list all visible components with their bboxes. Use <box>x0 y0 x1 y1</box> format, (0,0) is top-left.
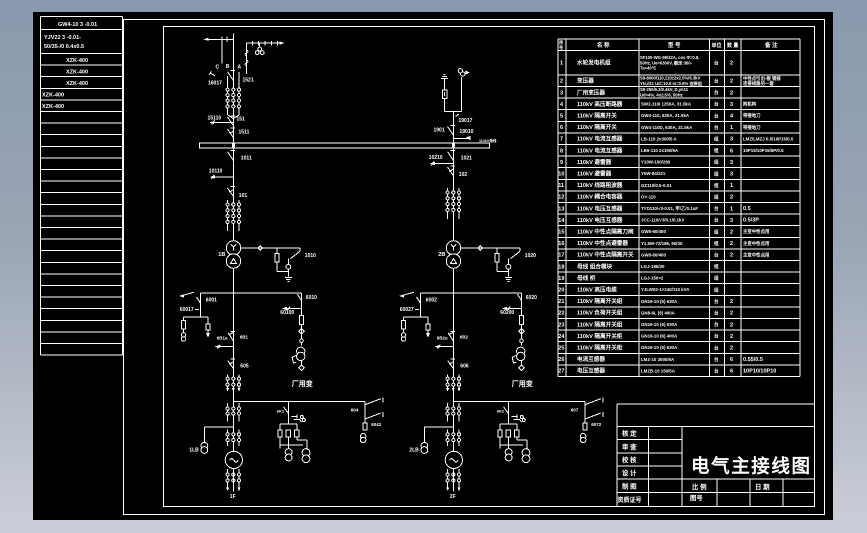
svg-text:台: 台 <box>714 124 719 131</box>
svg-text:YN,d11 Ud=10.5 Io=0.8% 连接组: YN,d11 Ud=10.5 Io=0.8% 连接组 <box>640 80 703 87</box>
svg-text:2LB: 2LB <box>409 448 419 454</box>
svg-text:110kV 隔离开关柜: 110kV 隔离开关柜 <box>577 344 623 352</box>
breaker 1511 blade <box>228 129 234 138</box>
svg-text:5: 5 <box>560 114 563 120</box>
svg-text:审 查: 审 查 <box>622 442 637 451</box>
svg-text:10P10/10P10: 10P10/10P10 <box>743 368 776 374</box>
svg-text:16017: 16017 <box>208 81 222 87</box>
arrester down arrow <box>206 333 210 338</box>
earthing 60100 arm <box>286 308 302 310</box>
PT header wire <box>404 316 428 318</box>
svg-text:制 图: 制 图 <box>622 481 637 490</box>
svg-text:19: 19 <box>558 276 564 282</box>
svg-text:16: 16 <box>558 241 564 247</box>
generator 1F circle <box>225 451 242 468</box>
line PT branch wire <box>246 43 248 74</box>
svg-text:6B2a: 6B2a <box>437 336 448 341</box>
station hook wire <box>300 339 304 343</box>
svg-text:2: 2 <box>560 79 563 85</box>
disconnect 6B2 blade <box>448 333 453 341</box>
svg-text:50/35-/0 0.4x0.5: 50/35-/0 0.4x0.5 <box>44 44 84 50</box>
svg-text:台: 台 <box>714 60 719 67</box>
svg-text:21: 21 <box>558 299 564 305</box>
svg-text:6: 6 <box>730 148 733 154</box>
station transformer circles <box>297 347 305 355</box>
CT arrows upper <box>446 388 449 392</box>
neutral arrester fuse <box>495 254 499 263</box>
svg-text:设 计: 设 计 <box>622 468 637 477</box>
svg-text:S9-250/6.3/0.4kV, D,yn11: S9-250/6.3/0.4kV, D,yn11 <box>640 87 689 92</box>
station fuse <box>299 315 303 324</box>
svg-text:10: 10 <box>558 172 564 178</box>
svg-text:Ud=4%, 4x2.5%, 50Hz: Ud=4%, 4x2.5%, 50Hz <box>640 93 683 98</box>
svg-text:6: 6 <box>730 357 733 363</box>
svg-text:110kV 隔离开关: 110kV 隔离开关 <box>577 123 617 131</box>
breaker 605 blade <box>228 360 234 368</box>
svg-text:台: 台 <box>714 78 719 85</box>
svg-text:GN19-10 (6) 630A: GN19-10 (6) 630A <box>641 345 678 350</box>
svg-text:6001: 6001 <box>206 298 217 304</box>
svg-text:2: 2 <box>730 230 733 236</box>
svg-text:6B1: 6B1 <box>240 335 249 340</box>
wire 110kV riser <box>452 148 454 241</box>
PT header wire <box>184 316 208 318</box>
earthing switch 15110 arm <box>213 122 233 124</box>
svg-text:18: 18 <box>558 264 564 270</box>
neutral ground <box>505 277 512 279</box>
svg-text:台: 台 <box>714 205 719 212</box>
wire to terminal <box>452 469 454 492</box>
svg-text:20: 20 <box>558 288 564 294</box>
svg-text:6042: 6042 <box>371 422 382 427</box>
svg-text:110kV 电压互感器: 110kV 电压互感器 <box>577 204 623 212</box>
svg-text:带接地刀: 带接地刀 <box>743 124 761 131</box>
svg-text:台: 台 <box>714 356 719 363</box>
svg-text:厂用变: 厂用变 <box>292 379 313 388</box>
svg-text:6B1a: 6B1a <box>217 336 228 341</box>
svg-text:110kV 中性点避雷器: 110kV 中性点避雷器 <box>577 239 628 247</box>
disconnect 6001 blade+arrow <box>181 292 194 296</box>
generator 2F circle <box>445 451 462 468</box>
110kV busbar <box>200 143 490 148</box>
svg-text:1F: 1F <box>230 494 236 500</box>
svg-text:组: 组 <box>714 147 719 154</box>
svg-text:组: 组 <box>714 240 719 247</box>
diamond lower <box>519 365 524 370</box>
earthing arm LV <box>218 346 233 348</box>
arrester fuse right <box>207 317 209 324</box>
svg-text:6: 6 <box>560 125 563 131</box>
coupling PT circles <box>259 43 261 47</box>
svg-text:组: 组 <box>714 194 719 201</box>
svg-text:GN19-10 (6) 630A: GN19-10 (6) 630A <box>641 299 678 304</box>
svg-text:主变中性点用: 主变中性点用 <box>743 228 769 235</box>
disconnect 6B1 blade <box>228 333 233 341</box>
svg-text:单位: 单位 <box>712 42 722 49</box>
svg-text:1: 1 <box>730 206 733 212</box>
svg-text:SF100-WG-99/22A, cos Φ=0.8,: SF100-WG-99/22A, cos Φ=0.8, <box>640 55 699 60</box>
svg-text:604: 604 <box>351 408 359 413</box>
inner sheet frame <box>164 27 815 507</box>
bus junction unit1 <box>232 143 235 148</box>
tap PT circles <box>581 434 586 439</box>
svg-text:C: C <box>216 65 220 71</box>
earth tick 16017 <box>211 73 216 76</box>
mid PT winding B <box>522 449 530 457</box>
disconnect 151 blade <box>228 117 234 126</box>
svg-text:1LB: 1LB <box>189 448 199 454</box>
svg-text:2: 2 <box>730 253 733 259</box>
svg-text:3: 3 <box>730 160 733 166</box>
svg-text:台: 台 <box>714 101 719 108</box>
svg-text:10210: 10210 <box>429 155 443 161</box>
svg-text:110kV 线路阻波器: 110kV 线路阻波器 <box>577 181 623 189</box>
transformer 1B <box>226 241 240 255</box>
svg-text:12: 12 <box>558 195 564 201</box>
CT group gen upper <box>447 375 449 392</box>
wire LV riser <box>232 268 234 451</box>
svg-text:GW8-60/400: GW8-60/400 <box>641 252 666 257</box>
svg-text:101: 101 <box>239 193 248 199</box>
svg-text:台: 台 <box>714 217 719 224</box>
svg-text:60027: 60027 <box>400 307 414 313</box>
svg-text:110kV 中性点隔离刀闸: 110kV 中性点隔离刀闸 <box>577 228 634 236</box>
mid PT winding A <box>505 449 512 456</box>
mid PT squiggles <box>512 415 522 423</box>
svg-text:台: 台 <box>714 112 719 119</box>
svg-text:带接地刀: 带接地刀 <box>743 112 761 119</box>
tap switch blade2 <box>365 413 381 419</box>
svg-text:GN19-10 (6) 400A: GN19-10 (6) 400A <box>641 334 678 339</box>
svg-text:13: 13 <box>558 206 564 212</box>
svg-text:母线 桥: 母线 桥 <box>577 274 596 282</box>
station hook wire <box>520 339 524 343</box>
neutral fuse branch wire <box>276 248 278 254</box>
svg-text:19010: 19010 <box>460 129 474 135</box>
CT group gen upper <box>227 375 229 392</box>
svg-text:YJLW02-1×240/110 kVA: YJLW02-1×240/110 kVA <box>641 287 690 292</box>
svg-text:Ta=40℃: Ta=40℃ <box>640 66 657 71</box>
tap switch blade1 <box>584 402 586 423</box>
incoming overhead line <box>209 38 234 40</box>
mid PT fuses <box>499 424 501 430</box>
svg-text:19017: 19017 <box>459 118 473 124</box>
svg-text:6020: 6020 <box>526 295 537 301</box>
svg-text:台: 台 <box>714 333 719 340</box>
svg-text:110kV母线: 110kV母线 <box>479 138 497 143</box>
svg-text:3: 3 <box>730 218 733 224</box>
svg-text:组: 组 <box>714 159 719 166</box>
wire unit2 riser <box>452 111 454 143</box>
svg-text:台: 台 <box>714 298 719 305</box>
svg-text:GW4-110, 630A, 31.5kA: GW4-110, 630A, 31.5kA <box>641 113 690 118</box>
svg-text:XZK-400: XZK-400 <box>42 93 64 99</box>
svg-text:110kV 耦合电容器: 110kV 耦合电容器 <box>577 193 623 201</box>
mid PT squiggles <box>292 415 302 423</box>
6kV tee wire <box>201 292 302 294</box>
exciter tap wire <box>204 426 233 428</box>
svg-text:组: 组 <box>714 263 719 270</box>
svg-text:23: 23 <box>558 322 564 328</box>
svg-text:605: 605 <box>240 364 249 370</box>
svg-text:8: 8 <box>560 148 563 154</box>
svg-text:GW8-60/400: GW8-60/400 <box>641 229 666 234</box>
svg-text:1: 1 <box>560 61 563 67</box>
bay top tee wire <box>445 110 462 112</box>
svg-text:6K1: 6K1 <box>277 409 285 414</box>
arrester top wire <box>444 79 446 90</box>
breaker 606 blade <box>448 360 454 368</box>
CT group (4 windings) <box>227 200 229 231</box>
svg-text:2: 2 <box>730 346 733 352</box>
svg-text:2B: 2B <box>438 252 445 258</box>
tap wire <box>453 401 585 403</box>
wire incoming vertical <box>232 34 234 144</box>
svg-text:台: 台 <box>714 252 719 259</box>
line trap ticks <box>252 41 254 45</box>
breaker 101 blade <box>228 188 234 197</box>
tap wire <box>233 401 365 403</box>
svg-text:1511: 1511 <box>239 130 250 136</box>
svg-text:60200: 60200 <box>500 310 514 316</box>
mid PT blade <box>504 407 509 414</box>
svg-text:B: B <box>226 64 230 70</box>
svg-text:110kV 避雷器: 110kV 避雷器 <box>577 158 612 166</box>
arrester down arrow <box>426 333 430 338</box>
svg-text:电压互感器: 电压互感器 <box>577 367 605 375</box>
svg-text:TYD110/√3-0.01, 甲/乙/0.1uF: TYD110/√3-0.01, 甲/乙/0.1uF <box>641 205 698 212</box>
svg-text:S9-8000/110,110±2x2.5%/6.3kV: S9-8000/110,110±2x2.5%/6.3kV <box>640 76 700 81</box>
CT group gen lower <box>227 430 229 447</box>
tap PT circles <box>361 434 366 439</box>
neutral disconnect blade <box>510 251 520 259</box>
svg-text:2: 2 <box>730 90 733 96</box>
svg-text:SW2-110I 1250A, 31.5kA: SW2-110I 1250A, 31.5kA <box>641 102 692 107</box>
diamond lower <box>299 365 304 370</box>
svg-text:LMZB-10 150/5A: LMZB-10 150/5A <box>641 368 676 373</box>
svg-text:7: 7 <box>560 137 563 143</box>
transformer 2B <box>446 241 460 255</box>
PT fuse left <box>403 317 405 320</box>
svg-text:0.55/0.5: 0.55/0.5 <box>743 357 763 363</box>
svg-text:XZK-400: XZK-400 <box>42 104 64 110</box>
mid PT jog wire <box>297 439 307 441</box>
svg-text:电气主接线图: 电气主接线图 <box>691 456 812 477</box>
neutral arrester fuse <box>275 254 279 263</box>
arrester fuse right <box>427 317 429 324</box>
exciter transformer 1LB <box>201 442 208 449</box>
svg-text:LGJ-150×2: LGJ-150×2 <box>641 276 664 281</box>
earthing switch 10110 arm <box>214 176 234 178</box>
mid PT header <box>280 423 297 425</box>
svg-text:台: 台 <box>714 321 719 328</box>
tap switch blade2 <box>585 413 601 419</box>
wire below station tr <box>521 361 523 366</box>
CT arrows below gen <box>226 487 229 491</box>
svg-text:GW4-10 3 -0.01: GW4-10 3 -0.01 <box>58 22 97 28</box>
mid PT winding A <box>285 449 292 456</box>
svg-text:110kV 负荷开关组: 110kV 负荷开关组 <box>577 309 623 317</box>
disconnect 6020 blade <box>521 293 523 346</box>
generator 2F tilde <box>450 459 459 462</box>
mid PT jog wire <box>517 439 527 441</box>
outer sheet frame <box>124 20 825 515</box>
svg-text:3: 3 <box>730 172 733 178</box>
svg-text:22: 22 <box>558 311 564 317</box>
CT group below tap <box>227 403 229 421</box>
station transformer circles <box>517 347 525 355</box>
neutral ground <box>285 277 292 279</box>
svg-text:11: 11 <box>558 183 564 189</box>
neutral PT circle <box>506 264 511 269</box>
svg-text:6072: 6072 <box>591 422 602 427</box>
transformer 2B delta symbol <box>451 259 457 264</box>
svg-text:2: 2 <box>730 195 733 201</box>
station fuse <box>519 315 523 324</box>
svg-text:型 号: 型 号 <box>668 41 681 49</box>
equipment list table <box>558 39 800 377</box>
svg-text:3: 3 <box>730 137 733 143</box>
svg-text:110kV 中性点隔离开关: 110kV 中性点隔离开关 <box>577 251 634 259</box>
svg-text:110kV 高压电缆: 110kV 高压电缆 <box>577 286 617 294</box>
svg-text:LMZ-10 3000/5A: LMZ-10 3000/5A <box>641 357 675 362</box>
mid PT drop wire <box>507 402 509 425</box>
left material table <box>41 17 123 356</box>
svg-text:数 量: 数 量 <box>727 42 738 49</box>
svg-text:水轮发电机组: 水轮发电机组 <box>576 59 611 67</box>
svg-text:Y1.5W-72/186, 60/30: Y1.5W-72/186, 60/30 <box>641 241 683 246</box>
svg-text:OY-110: OY-110 <box>641 194 656 199</box>
surge arrester FZ rect <box>442 90 447 98</box>
svg-text:15110: 15110 <box>208 116 222 122</box>
wire phase A stub <box>238 72 240 84</box>
svg-text:1B: 1B <box>218 252 225 258</box>
svg-text:6010: 6010 <box>306 295 317 301</box>
PT winding circles <box>401 333 405 337</box>
neutral PT circle <box>286 264 291 269</box>
wire PT drop <box>200 293 202 317</box>
CT group 151CT (4 windings) <box>227 84 229 115</box>
arrester ground up <box>441 77 448 79</box>
generator 1F tilde <box>230 459 239 462</box>
svg-text:60100: 60100 <box>280 310 294 316</box>
tap fuse <box>583 423 587 430</box>
svg-text:台: 台 <box>714 89 719 96</box>
svg-text:110kV 电流互感器: 110kV 电流互感器 <box>577 135 623 143</box>
svg-text:XZK-400: XZK-400 <box>66 70 88 76</box>
svg-text:110kV 电流互感器: 110kV 电流互感器 <box>577 146 623 154</box>
svg-text:2: 2 <box>730 322 733 328</box>
svg-text:YJV22 3 -0.01-: YJV22 3 -0.01- <box>44 35 81 41</box>
CT arrows upper <box>226 388 229 392</box>
CT merge wires <box>228 115 234 119</box>
wire 110kV riser <box>232 148 234 241</box>
earth tick 60027 <box>415 309 419 311</box>
bus junction unit2 <box>452 143 455 148</box>
svg-text:6002: 6002 <box>426 298 437 304</box>
phase conductor C <box>221 39 223 63</box>
svg-text:Y5W-84/221: Y5W-84/221 <box>641 171 666 176</box>
svg-text:A: A <box>238 65 242 71</box>
svg-text:图号: 图号 <box>690 493 703 502</box>
svg-text:14: 14 <box>558 218 565 224</box>
neutral fuse branch wire <box>496 248 498 254</box>
svg-text:变压器: 变压器 <box>577 77 594 85</box>
svg-text:GZ110/0.5-0.01: GZ110/0.5-0.01 <box>641 183 672 188</box>
CT group below gen <box>227 469 229 488</box>
CT group below gen <box>447 469 449 488</box>
svg-text:606: 606 <box>460 364 469 370</box>
svg-text:27: 27 <box>558 369 564 375</box>
neutral disconnect blade <box>290 251 300 259</box>
svg-text:LB-110 2x300/5 A: LB-110 2x300/5 A <box>641 136 678 141</box>
svg-text:台: 台 <box>714 310 719 317</box>
disconnect 6002 blade+arrow <box>401 292 414 296</box>
svg-text:组: 组 <box>714 136 719 143</box>
svg-text:主变中性点用: 主变中性点用 <box>743 240 769 247</box>
svg-text:GW4-110D, 630A, 31.5kA: GW4-110D, 630A, 31.5kA <box>641 125 693 130</box>
earth tick 60017 <box>195 309 199 311</box>
svg-text:组: 组 <box>714 228 719 235</box>
svg-text:110kV 电压互感器: 110kV 电压互感器 <box>577 216 623 224</box>
svg-text:110kV 避雷器: 110kV 避雷器 <box>577 170 612 178</box>
wire PT drop <box>420 293 422 317</box>
svg-text:2: 2 <box>730 334 733 340</box>
svg-text:厂用变: 厂用变 <box>512 379 533 388</box>
svg-text:资质证号: 资质证号 <box>618 496 642 504</box>
PT fuse left <box>183 317 185 320</box>
svg-text:核 定: 核 定 <box>622 429 637 438</box>
svg-text:Y10W-100/260: Y10W-100/260 <box>641 160 671 165</box>
CT group below tap <box>447 403 449 421</box>
svg-text:9: 9 <box>560 160 563 166</box>
svg-text:3: 3 <box>730 102 733 108</box>
svg-text:607: 607 <box>571 408 579 413</box>
svg-text:主变中性点用: 主变中性点用 <box>743 251 769 258</box>
svg-text:校 核: 校 核 <box>622 455 637 464</box>
svg-text:1020: 1020 <box>525 253 536 259</box>
svg-text:110kV 隔离开关组: 110kV 隔离开关组 <box>577 320 623 328</box>
svg-text:JCC-110/√3/0.1/0.1kV: JCC-110/√3/0.1/0.1kV <box>641 218 684 223</box>
line trap arrow <box>280 42 285 45</box>
earthing switch 10210 arm <box>434 163 454 165</box>
svg-text:0.5: 0.5 <box>743 206 751 212</box>
svg-text:1901: 1901 <box>434 128 445 134</box>
earth tick 19017 <box>456 114 460 116</box>
svg-text:1010: 1010 <box>305 253 316 259</box>
neutral diamond <box>258 246 262 250</box>
svg-text:组: 组 <box>714 286 719 293</box>
wire to terminal <box>232 469 234 492</box>
mid PT bottom header <box>500 444 523 446</box>
svg-text:17: 17 <box>558 253 564 259</box>
neutral diamond <box>478 246 482 250</box>
svg-text:0.5/3P: 0.5/3P <box>743 218 759 224</box>
mid PT fuses <box>279 424 281 430</box>
svg-text:台: 台 <box>714 344 719 351</box>
bus PT symbol <box>458 69 462 73</box>
wire LV riser <box>452 268 454 451</box>
wire phase C stub2 <box>227 76 229 84</box>
svg-text:110kV 隔离开关柜: 110kV 隔离开关柜 <box>577 332 623 340</box>
svg-text:1021: 1021 <box>461 156 472 162</box>
mid PT blade <box>284 407 289 414</box>
disconnect 16017 blade <box>228 72 234 81</box>
svg-text:1: 1 <box>730 125 733 131</box>
PT winding circles <box>181 333 185 337</box>
svg-text:2F: 2F <box>450 494 456 500</box>
CT group (4 windings) <box>447 188 449 219</box>
